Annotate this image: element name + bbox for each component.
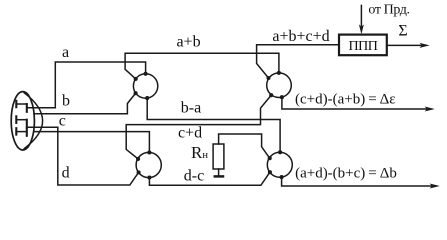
- wire c+d (hybrid 2 upper-left port to hybrid 3 lower-left port): [126, 95, 271, 159]
- feed probe 3 bar: [15, 116, 17, 123]
- port dot U2 lower-left: [137, 170, 141, 174]
- port dot U3 lower-left: [269, 93, 273, 97]
- antenna reflector profile arc: [24, 93, 42, 149]
- hybrid ring U2: [136, 152, 161, 177]
- wire a+b (hybrid 1 upper-left port to hybrid 3 top port): [125, 53, 279, 79]
- port dot U1 upper-left: [134, 77, 138, 81]
- resistor Rn bottom lead: [218, 169, 220, 175]
- svg-text:a: a: [62, 44, 69, 61]
- wire Rn load (resistor top to hybrid 4 upper-left port): [219, 134, 270, 158]
- feed probe 2 bar: [26, 104, 28, 112]
- feed probe 3 line: [16, 119, 27, 121]
- svg-text:c: c: [59, 112, 66, 129]
- port dot U1 top: [144, 72, 148, 76]
- wire a (feeder riser and horizontal run into hybrid 1 top port): [55, 62, 145, 108]
- port dot U4 top: [278, 150, 282, 154]
- hybrid ring U1: [133, 74, 157, 98]
- wire a+b+c+d (hybrid 3 upper-left port to PPP box): [257, 45, 339, 78]
- feed probe 5 bar: [15, 128, 17, 134]
- arrowhead delta-b: [430, 184, 440, 189]
- svg-text:d: d: [62, 164, 70, 181]
- svg-text:d-c: d-c: [184, 168, 204, 185]
- svg-text:(c+d)-(a+b) = Δε: (c+d)-(a+b) = Δε: [295, 92, 396, 108]
- wire delta-b output: [282, 177, 432, 186]
- feed probe 2 line (feeder a): [27, 107, 56, 109]
- svg-text:ППП: ППП: [348, 39, 377, 54]
- wire delta-epsilon output: [282, 97, 427, 109]
- port dot U1 bottom: [145, 96, 149, 100]
- port dot U3 upper-left: [266, 76, 270, 80]
- port dot U1 lower-left: [134, 91, 138, 95]
- feed probe 6 bar: [26, 129, 28, 136]
- port dot U4 lower-left: [268, 170, 272, 174]
- feed probe 1 line: [16, 103, 27, 105]
- arrowhead sum output: [420, 43, 430, 48]
- wire b (from antenna, jog up into hybrid 1 lower-left port): [34, 93, 136, 114]
- wire b-a (hybrid 1 bottom port to hybrid 4 top port): [147, 98, 280, 152]
- port dot U2 bottom: [147, 175, 151, 179]
- feed probe 5 line: [16, 131, 27, 133]
- port dot U2 upper-left: [136, 157, 140, 161]
- arrowhead from transmitter: [359, 24, 364, 34]
- arrowhead delta-epsilon: [425, 107, 435, 112]
- feed probe 4 bar: [26, 120, 28, 128]
- wire from transmitter: [360, 5, 362, 26]
- port dot U4 upper-left: [268, 156, 272, 160]
- svg-text:от Прд.: от Прд.: [368, 3, 409, 18]
- svg-text:b-a: b-a: [181, 99, 201, 116]
- svg-text:c+d: c+d: [178, 125, 202, 142]
- resistor Rn body: [213, 144, 224, 169]
- PPP box: [339, 35, 387, 56]
- wire d-c (hybrid 2 bottom port to hybrid 4 lower-left port): [149, 172, 270, 185]
- svg-text:b: b: [62, 92, 70, 109]
- feed probe 4 line (feeder d): [27, 126, 58, 128]
- wire sum output: [387, 44, 422, 46]
- port dot U3 top: [277, 71, 281, 75]
- hybrid ring U4: [267, 152, 292, 177]
- ground: [215, 175, 223, 178]
- port dot U4 bottom: [280, 175, 284, 179]
- wire c (from antenna into hybrid 2 top port): [34, 132, 149, 153]
- port dot U3 bottom: [280, 95, 284, 99]
- svg-text:a+b+c+d: a+b+c+d: [272, 28, 329, 45]
- wire d (feeder drop and horizontal run, diagonal into hybrid 2 lower-left port): [58, 127, 139, 185]
- svg-text:(a+d)-(b+c) = Δb: (a+d)-(b+c) = Δb: [295, 165, 397, 181]
- svg-text:Σ: Σ: [398, 23, 407, 40]
- hybrid ring U3: [267, 73, 292, 98]
- feed probe 1 bar: [15, 101, 17, 107]
- antenna reflector rim: [11, 92, 34, 150]
- port dot U2 top: [147, 150, 151, 154]
- svg-text:Rн: Rн: [191, 143, 208, 162]
- svg-text:a+b: a+b: [176, 33, 200, 50]
